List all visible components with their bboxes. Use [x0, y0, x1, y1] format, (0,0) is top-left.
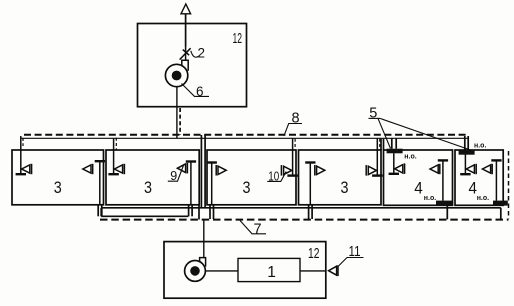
exhaust stack arrow	[181, 4, 191, 47]
svg-text:н.о.: н.о.	[477, 195, 489, 202]
duct 8 top dashed line	[24, 134, 469, 136]
svg-text:н.о.: н.о.	[404, 153, 416, 160]
exhaust grille room1	[83, 161, 105, 205]
svg-text:5: 5	[369, 105, 377, 121]
svg-text:12: 12	[233, 31, 243, 47]
feed to damper room5	[392, 138, 396, 148]
duct 7 riser wall segments	[198, 205, 200, 220]
label 9 leader	[168, 165, 184, 182]
riser from fan 6 to duct 8	[177, 87, 180, 139]
fan U6 (roof exhaust fan)	[165, 60, 188, 87]
box 12 (roof fan chamber)	[138, 24, 247, 107]
exhaust grille room2	[177, 162, 196, 205]
label 10 leader	[267, 172, 286, 182]
fire damper NO room5 bottom	[436, 201, 453, 206]
central riser duct	[201, 135, 205, 258]
exhaust stub below room4	[309, 205, 313, 219]
supply drop room5	[389, 153, 405, 174]
fire damper NO room6 top	[459, 150, 475, 155]
exhaust stub below room1	[98, 205, 102, 217]
exhaust grille room6	[482, 160, 501, 200]
supply riser room4	[366, 138, 382, 175]
supply riser room3	[281, 138, 297, 175]
exhaust stub below room2	[189, 205, 193, 217]
drop dashed companions	[23, 138, 380, 150]
svg-text:9: 9	[170, 169, 177, 183]
wire heater to intake	[300, 270, 326, 272]
svg-text:11: 11	[349, 244, 361, 260]
supply drop room1	[16, 136, 32, 174]
svg-text:3: 3	[54, 179, 62, 197]
wire fan to heater	[206, 270, 238, 272]
label 6 leader	[182, 84, 210, 97]
svg-text:н.о.: н.о.	[424, 195, 436, 202]
fire damper NO room6 bottom	[493, 201, 508, 206]
label 2 leader	[191, 51, 199, 57]
room box 3 #2	[106, 150, 199, 205]
exhaust stub below room3	[210, 205, 214, 219]
svg-text:6: 6	[196, 84, 204, 99]
svg-text:1: 1	[267, 264, 276, 281]
exhaust grille room4	[305, 163, 325, 205]
box4/box5 wall risers	[381, 139, 384, 150]
duct 7 right end	[447, 205, 501, 219]
label 5 leaders	[369, 118, 471, 150]
exhaust grille room5	[430, 160, 448, 200]
svg-text:4: 4	[414, 180, 423, 198]
svg-text:7: 7	[254, 221, 262, 237]
duct 7 top line	[101, 207, 501, 209]
svg-text:12: 12	[308, 246, 320, 262]
room box 4 #2	[455, 150, 503, 205]
exhaust grille room3	[207, 163, 227, 205]
svg-text:3: 3	[341, 179, 349, 197]
room box 3 #3	[207, 150, 296, 205]
box 12 (supply fan chamber)	[164, 242, 326, 299]
duct 7 bottom dashed line	[100, 219, 509, 221]
duct 8 bottom line	[20, 137, 468, 139]
duct 7 left lower segment	[101, 208, 188, 217]
supply drop room2	[108, 138, 124, 174]
svg-text:4: 4	[468, 180, 477, 198]
label 7 leader	[240, 221, 266, 234]
heater 1	[238, 258, 300, 281]
room box 4 #1	[384, 150, 453, 205]
svg-text:10: 10	[268, 169, 279, 183]
svg-text:н.о.: н.о.	[474, 143, 486, 150]
right boundary dashed	[508, 151, 510, 219]
room box 3 #1	[12, 150, 104, 205]
svg-text:3: 3	[243, 179, 251, 197]
svg-text:2: 2	[198, 46, 206, 61]
fire damper NO room5 top	[387, 149, 403, 154]
fan U1 (supply fan)	[185, 258, 206, 282]
duct 8 end feed to damper room6	[465, 136, 468, 150]
supply drop room6	[460, 155, 476, 175]
intake valve 11	[329, 265, 338, 276]
room box 3 #4	[299, 150, 382, 205]
label 8 leader	[284, 124, 302, 136]
svg-text:8: 8	[292, 111, 300, 127]
svg-text:3: 3	[144, 179, 152, 197]
valve 2 (damper on stack)	[180, 47, 191, 62]
label 11 leader	[339, 258, 364, 267]
